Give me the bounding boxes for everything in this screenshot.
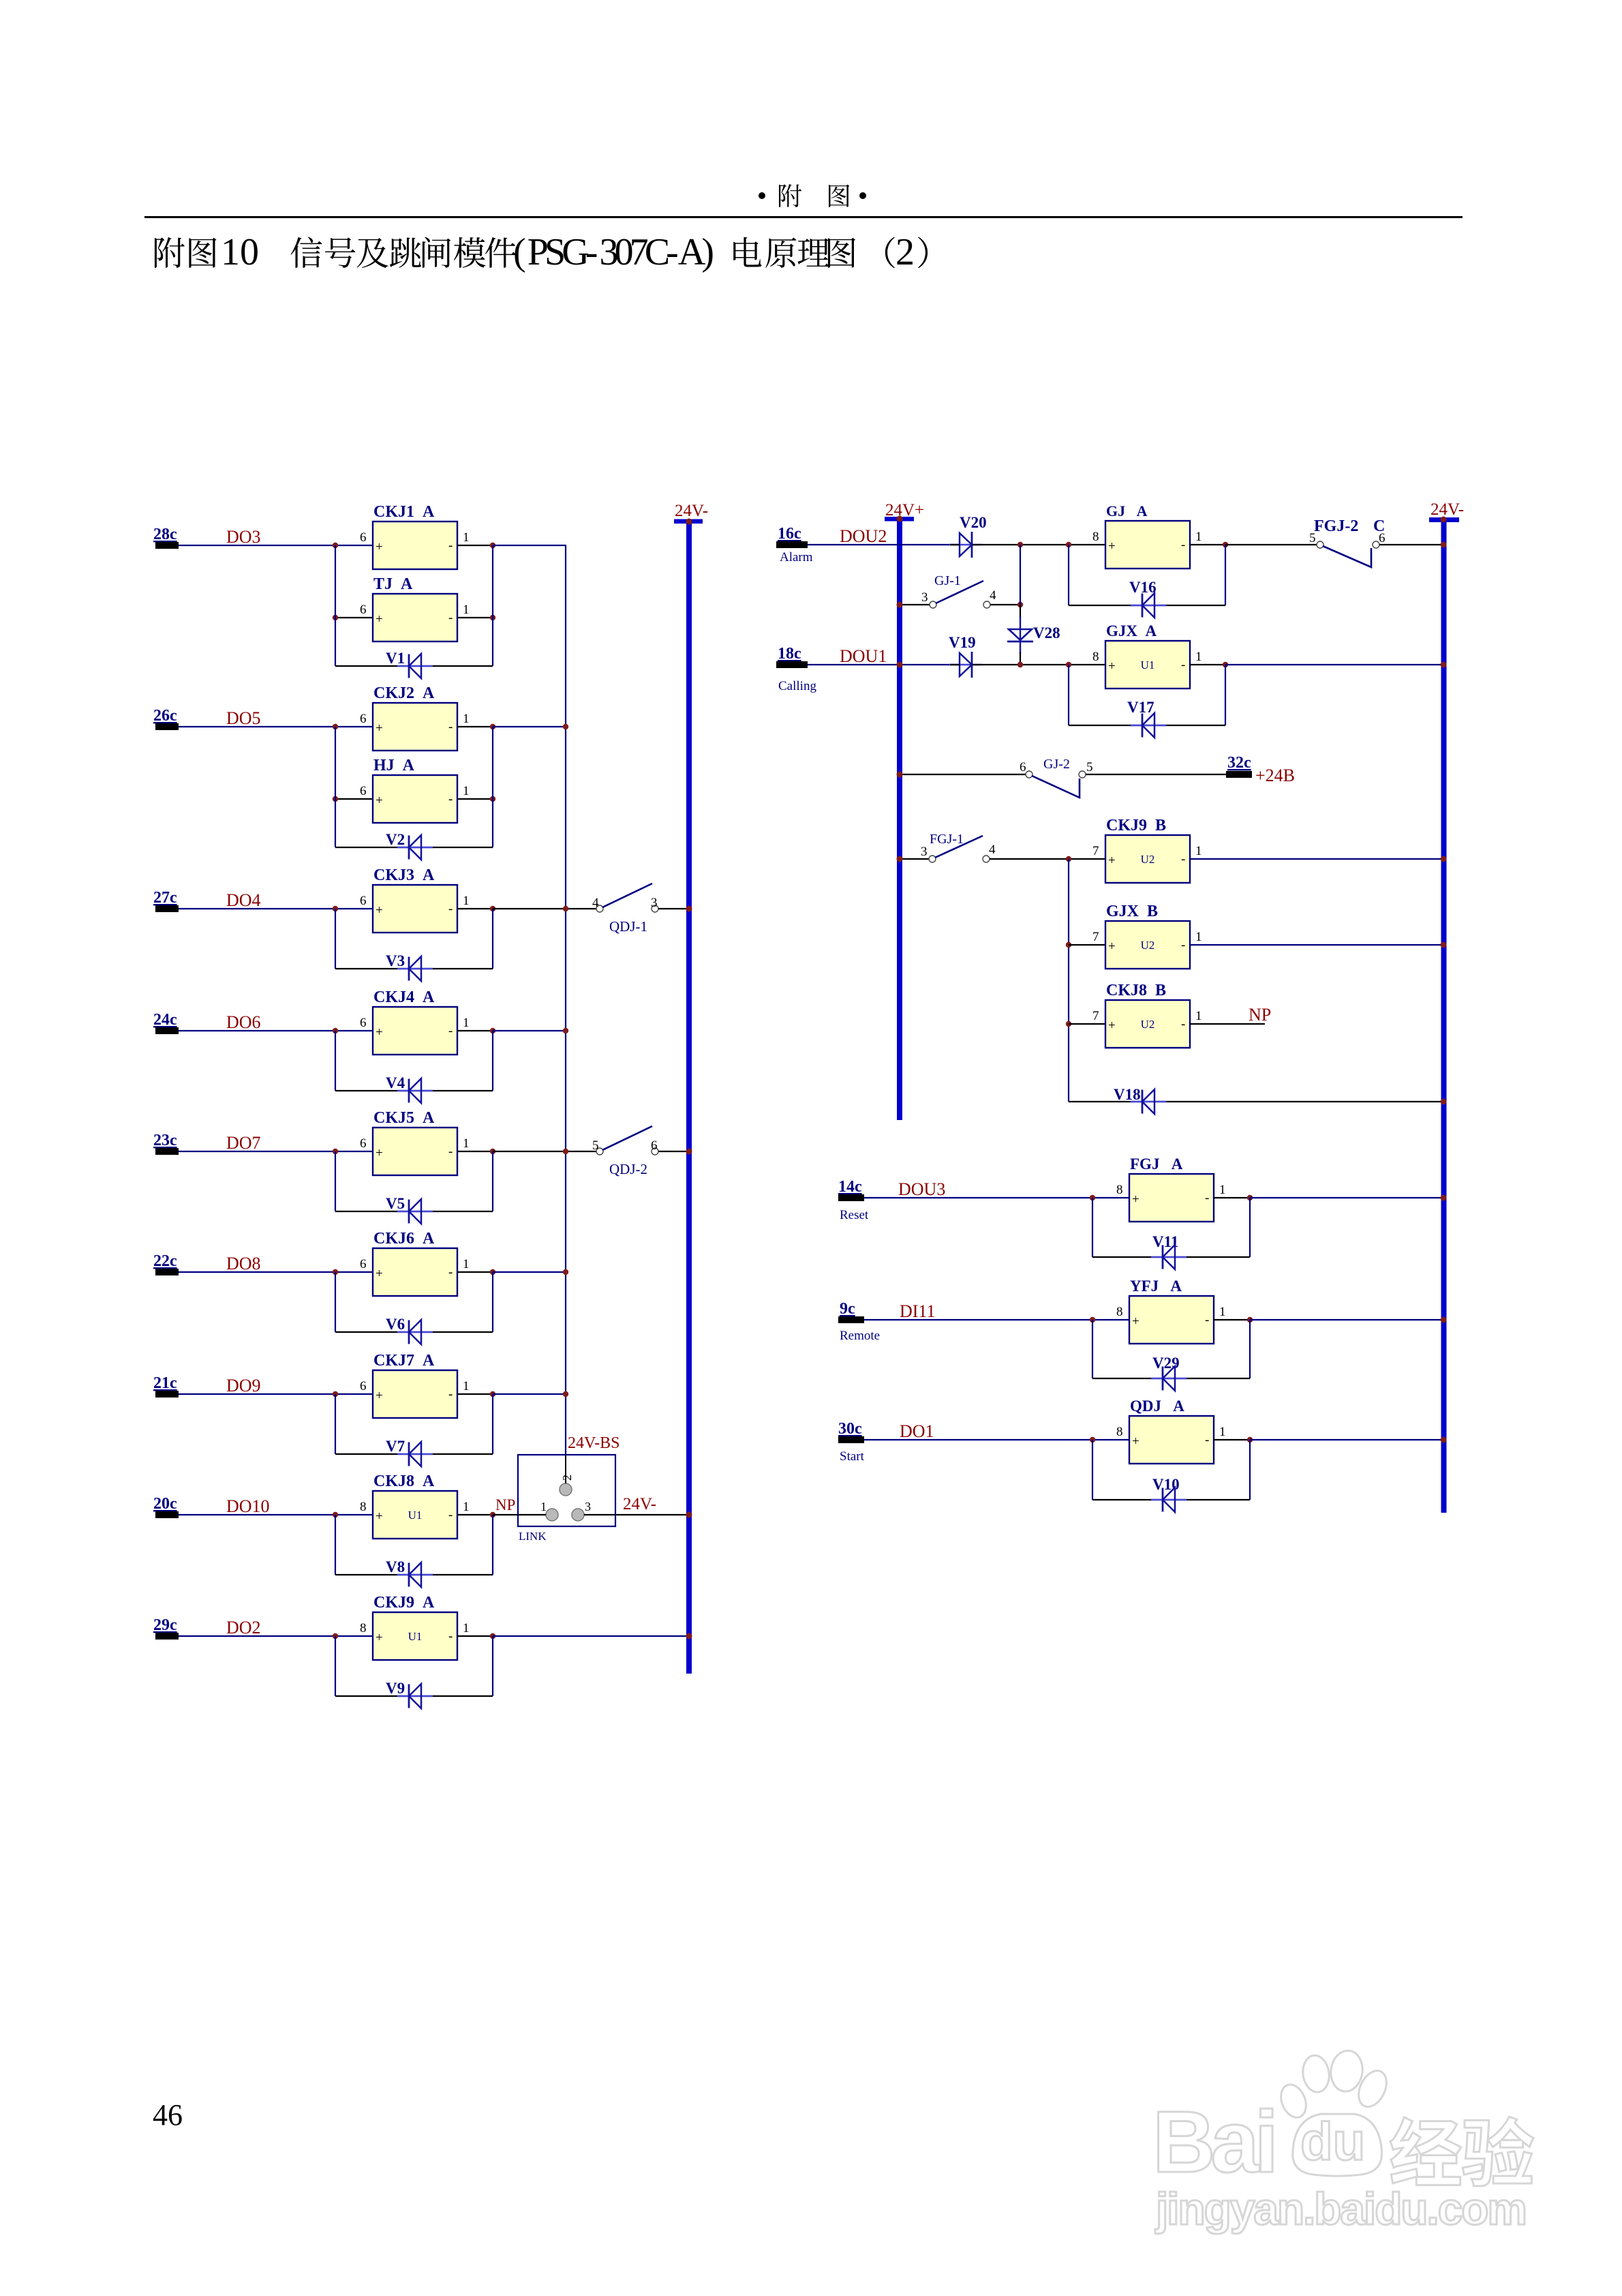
wire 21c to relay bbox=[179, 1393, 373, 1395]
svg-text:6: 6 bbox=[360, 1257, 367, 1271]
wire CKJ9 B to 24V- bus bbox=[1190, 858, 1443, 860]
node junction GJ coil right bbox=[1223, 542, 1228, 547]
svg-text:-: - bbox=[1181, 852, 1185, 866]
net label DO2 bbox=[226, 1618, 261, 1637]
terminal 16c Alarm bbox=[776, 525, 813, 564]
wire vertical left DO2 group bbox=[335, 1636, 336, 1696]
relay CKJ2 A bbox=[360, 684, 470, 751]
relay GJX A bbox=[1092, 622, 1202, 689]
svg-text:( PSG- 307C- A): ( PSG- 307C- A) bbox=[513, 231, 714, 273]
wire V18 row bbox=[1069, 1101, 1443, 1102]
svg-text:-: - bbox=[1205, 1313, 1209, 1327]
diode V10 bbox=[1151, 1476, 1187, 1512]
wire GJX A to 24V- bus bbox=[1225, 664, 1443, 665]
node junction right DO9 bbox=[490, 1391, 495, 1397]
connector LINK bbox=[518, 1455, 615, 1543]
svg-text:+: + bbox=[376, 612, 383, 626]
wire GJX B to 24V- bus bbox=[1190, 944, 1443, 946]
node 24V- right bus junction QDJ A bbox=[1441, 1437, 1447, 1443]
svg-text:10: 10 bbox=[221, 231, 259, 273]
wire GJX A pin1 stub bbox=[1190, 664, 1225, 665]
node feeder junction y2045 bbox=[563, 1391, 568, 1397]
node junction FGJ A right bbox=[1247, 1195, 1253, 1200]
relay GJX B bbox=[1092, 903, 1202, 969]
svg-text:V28: V28 bbox=[1033, 624, 1060, 641]
svg-text:LINK: LINK bbox=[519, 1530, 547, 1543]
svg-text:-: - bbox=[448, 1629, 453, 1644]
node junction right DO4 bbox=[490, 906, 495, 911]
relay CKJ8 B bbox=[1092, 982, 1202, 1048]
wire relay CKJ3 pin1 stub bbox=[457, 908, 493, 909]
svg-text:+: + bbox=[376, 1509, 383, 1524]
node junction 24V+ DOU1 bbox=[897, 662, 902, 667]
node feeder junction y1066 bbox=[563, 724, 568, 729]
node 24V- right bus junction CKJ9 B bbox=[1441, 856, 1447, 862]
svg-text:V8: V8 bbox=[386, 1558, 405, 1575]
svg-text:24c: 24c bbox=[153, 1011, 177, 1029]
node junction right DO8 bbox=[490, 1269, 495, 1275]
terminal 26c bbox=[153, 707, 179, 730]
svg-text:21c: 21c bbox=[153, 1374, 177, 1392]
wire QDJ A vertical left bbox=[1092, 1440, 1093, 1500]
wire vertical right DO3 group bbox=[492, 545, 493, 666]
wire diode row V4 bbox=[335, 1090, 493, 1091]
svg-text:-: - bbox=[448, 720, 453, 734]
wire 14c to FGJ A bbox=[864, 1197, 1129, 1198]
node junction left DO10 bbox=[333, 1512, 338, 1517]
diode V29 bbox=[1151, 1355, 1187, 1391]
wire V29 row bbox=[1092, 1378, 1250, 1379]
svg-text:+: + bbox=[376, 1631, 383, 1645]
svg-text:-: - bbox=[448, 902, 453, 916]
wire vertical left DO4 group bbox=[335, 909, 336, 969]
diode V1 bbox=[386, 650, 433, 678]
node junction GJX A coil right bbox=[1223, 662, 1228, 667]
diode V2 bbox=[386, 831, 433, 860]
svg-text:3: 3 bbox=[921, 845, 928, 859]
svg-text:DOU3: DOU3 bbox=[898, 1179, 945, 1199]
wire relay CKJ4 pin1 stub bbox=[457, 1030, 493, 1031]
svg-text:32c: 32c bbox=[1227, 754, 1251, 772]
net label DOU3 bbox=[898, 1179, 945, 1199]
relay CKJ5 A bbox=[360, 1109, 470, 1175]
wire GJX A group vertical right bbox=[1225, 665, 1226, 725]
relay HJ A bbox=[360, 757, 470, 823]
terminal 9c Remote bbox=[838, 1300, 880, 1343]
net label DO4 bbox=[226, 890, 261, 910]
svg-text:CKJ7 A: CKJ7 A bbox=[373, 1352, 435, 1370]
net label DI11 bbox=[900, 1301, 935, 1321]
wire YFJ A vertical left bbox=[1092, 1320, 1093, 1378]
svg-text:27c: 27c bbox=[153, 889, 177, 907]
svg-text:6: 6 bbox=[360, 784, 367, 798]
terminal 21c bbox=[153, 1374, 179, 1398]
page number 46 bbox=[153, 2098, 183, 2132]
node feeder junction DO7 bbox=[563, 1149, 568, 1154]
wire relay CKJ9 pin1 stub bbox=[457, 1635, 493, 1637]
svg-text:DI11: DI11 bbox=[900, 1301, 935, 1321]
wire vertical feeder to LINK pin2 bbox=[565, 545, 566, 1490]
svg-text:1: 1 bbox=[1195, 650, 1202, 664]
svg-text:V2: V2 bbox=[386, 831, 405, 848]
svg-text:DOU1: DOU1 bbox=[840, 646, 887, 666]
svg-text:CKJ8 A: CKJ8 A bbox=[373, 1472, 435, 1490]
svg-text:V18: V18 bbox=[1114, 1086, 1141, 1103]
svg-text:-: - bbox=[448, 611, 453, 625]
svg-text:-: - bbox=[448, 1387, 453, 1402]
svg-text:DO8: DO8 bbox=[226, 1254, 261, 1273]
node 24V+ bus junction GJ-2 bbox=[897, 772, 903, 778]
wire vertical right DO4 group bbox=[492, 909, 493, 969]
svg-text:U1: U1 bbox=[408, 1509, 423, 1522]
net label 24V- at LINK bbox=[623, 1495, 656, 1513]
svg-text:V1: V1 bbox=[386, 650, 405, 667]
svg-text:Start: Start bbox=[840, 1449, 865, 1464]
svg-text:28c: 28c bbox=[153, 526, 177, 543]
wire DO3 output to vertical feeder bbox=[493, 545, 566, 546]
wire 16c to diode V20 bbox=[808, 544, 960, 545]
relay GJ A bbox=[1092, 502, 1202, 569]
svg-text:Reset: Reset bbox=[840, 1208, 869, 1222]
svg-text:6: 6 bbox=[1379, 531, 1386, 545]
node 24V- left bus junction bus top bbox=[686, 519, 692, 525]
wire diode row V5 bbox=[335, 1211, 493, 1212]
wire vertical right DO5 group bbox=[492, 727, 493, 847]
svg-text:1: 1 bbox=[463, 784, 470, 798]
svg-text:24V-BS: 24V-BS bbox=[568, 1434, 619, 1452]
diode V16 bbox=[1129, 579, 1166, 618]
svg-text:+: + bbox=[376, 903, 383, 918]
wire LINK pin3 to 24V- bus bbox=[583, 1514, 689, 1515]
svg-text:CKJ2 A: CKJ2 A bbox=[373, 684, 435, 702]
svg-text:1: 1 bbox=[1195, 1009, 1202, 1023]
wire vertical left DO7 group bbox=[335, 1151, 336, 1211]
svg-text:6: 6 bbox=[360, 1136, 367, 1151]
wire relay CKJ1 pin1 stub bbox=[457, 545, 493, 546]
net label DO10 bbox=[226, 1496, 270, 1516]
node 24V+ bus junction FGJ-1 bbox=[897, 856, 903, 862]
power bus 24V- right bbox=[1429, 500, 1464, 1513]
svg-text:1: 1 bbox=[1219, 1183, 1226, 1197]
terminal 30c Start bbox=[838, 1420, 865, 1464]
net label DO8 bbox=[226, 1254, 261, 1273]
node junction V28 bottom bbox=[1017, 662, 1023, 667]
svg-text:-: - bbox=[448, 1024, 453, 1038]
wire relay CKJ2 pin1 stub bbox=[457, 726, 493, 727]
node junction left DO9 bbox=[333, 1391, 338, 1397]
net label DO3 bbox=[226, 527, 261, 547]
wire vertical right DO9 group bbox=[492, 1394, 493, 1454]
wire vertical right DO10 group bbox=[492, 1515, 493, 1575]
wire 9c to YFJ A bbox=[864, 1319, 1129, 1320]
relay FGJ A bbox=[1116, 1155, 1226, 1222]
net label DO6 bbox=[226, 1012, 261, 1032]
svg-text:DO6: DO6 bbox=[226, 1012, 261, 1032]
svg-text:GJ-1: GJ-1 bbox=[934, 573, 961, 588]
svg-text:FGJ-1: FGJ-1 bbox=[930, 832, 964, 847]
terminal 22c bbox=[153, 1252, 179, 1275]
node junction right DO10 bbox=[490, 1512, 495, 1517]
wire V16 row bbox=[1069, 605, 1225, 606]
svg-text:16c: 16c bbox=[778, 525, 801, 543]
svg-text:QDJ A: QDJ A bbox=[1130, 1398, 1184, 1415]
wire QDJ A pin1 stub bbox=[1214, 1439, 1250, 1440]
node feeder junction y1512 bbox=[563, 1028, 568, 1033]
relay CKJ9 A bbox=[360, 1594, 470, 1660]
svg-text:8: 8 bbox=[1092, 650, 1099, 664]
svg-text:V16: V16 bbox=[1129, 579, 1157, 596]
svg-text:1: 1 bbox=[463, 1621, 470, 1635]
wire V10 row bbox=[1092, 1499, 1250, 1500]
svg-text:CKJ3 A: CKJ3 A bbox=[373, 866, 435, 884]
svg-text:FGJ A: FGJ A bbox=[1130, 1155, 1183, 1173]
node junction QDJ A left bbox=[1090, 1437, 1095, 1442]
node 24V- right bus junction V18 bbox=[1441, 1099, 1447, 1105]
node junction right DO5 bbox=[490, 724, 495, 729]
net label DO7 bbox=[226, 1133, 261, 1153]
wire 28c to relay bbox=[179, 545, 373, 546]
wire 20c to relay bbox=[179, 1514, 373, 1515]
node junction YFJ A right bbox=[1247, 1317, 1253, 1323]
svg-text:GJ-2: GJ-2 bbox=[1043, 757, 1070, 772]
svg-text:+: + bbox=[1132, 1434, 1139, 1449]
node 24V+ bus junction GJ-1 bbox=[897, 602, 903, 608]
wire DO7 to switch QDJ-2 bbox=[493, 1151, 596, 1152]
wire output to feeder y2045 bbox=[493, 1393, 566, 1395]
wire DO4 to switch QDJ-1 bbox=[493, 908, 596, 909]
wire vertical right DO8 group bbox=[492, 1272, 493, 1332]
terminal 18c Calling bbox=[776, 645, 816, 693]
wire diode row V3 bbox=[335, 968, 493, 969]
svg-text:+: + bbox=[376, 1267, 383, 1281]
svg-text:DOU2: DOU2 bbox=[840, 526, 887, 546]
wire GJ-2 to 32c bbox=[1086, 774, 1226, 775]
svg-text:6: 6 bbox=[360, 603, 367, 617]
svg-text:+: + bbox=[376, 721, 383, 736]
svg-text:+24B: +24B bbox=[1255, 766, 1295, 785]
node 24V+ bus junction DOU1 bbox=[897, 662, 903, 668]
wire FGJ A to 24V- bus bbox=[1250, 1197, 1443, 1198]
relay CKJ6 A bbox=[360, 1230, 470, 1296]
wire V17 row bbox=[1069, 725, 1225, 726]
wire vertical right DO7 group bbox=[492, 1151, 493, 1211]
diode V8 bbox=[386, 1558, 433, 1587]
svg-text:CKJ5 A: CKJ5 A bbox=[373, 1109, 435, 1127]
svg-text:CKJ1 A: CKJ1 A bbox=[373, 503, 435, 521]
svg-text:HJ A: HJ A bbox=[373, 757, 415, 774]
wire 24c to relay bbox=[179, 1030, 373, 1031]
svg-text:2: 2 bbox=[560, 1475, 574, 1481]
node junction TJ left bbox=[333, 615, 338, 620]
svg-text:V9: V9 bbox=[386, 1680, 405, 1697]
node junction CKJ9 B coil left bbox=[1066, 856, 1071, 862]
svg-text:1: 1 bbox=[463, 530, 470, 545]
wire 18c to diode V19 bbox=[808, 664, 960, 665]
svg-text:+: + bbox=[376, 794, 383, 808]
svg-text:+: + bbox=[1132, 1314, 1139, 1329]
wire V11 row bbox=[1092, 1256, 1250, 1258]
svg-text:V20: V20 bbox=[960, 514, 987, 531]
wire 29c to relay bbox=[179, 1635, 373, 1637]
diode V9 bbox=[386, 1680, 433, 1708]
node feeder junction y1866 bbox=[563, 1269, 568, 1275]
wire vertical left DO5 group bbox=[335, 727, 336, 847]
svg-text:-: - bbox=[1181, 658, 1185, 672]
svg-text:8: 8 bbox=[1116, 1305, 1123, 1319]
diode V6 bbox=[386, 1316, 433, 1344]
svg-text:6: 6 bbox=[360, 894, 367, 908]
svg-text:QDJ-1: QDJ-1 bbox=[609, 918, 647, 935]
svg-text:V6: V6 bbox=[386, 1316, 405, 1333]
svg-text:-: - bbox=[448, 1508, 453, 1522]
node junction left DO6 bbox=[333, 1028, 338, 1033]
relay CKJ7 A bbox=[360, 1352, 470, 1418]
svg-text:7: 7 bbox=[1092, 844, 1099, 858]
svg-text:6: 6 bbox=[651, 1138, 658, 1153]
net label 24V-BS bbox=[568, 1434, 619, 1452]
node 24V- left bus junction QDJ-2 bbox=[686, 1149, 692, 1155]
terminal 20c bbox=[153, 1495, 179, 1518]
svg-text:CKJ4 A: CKJ4 A bbox=[373, 988, 435, 1006]
svg-text:8: 8 bbox=[1116, 1425, 1123, 1439]
svg-text:6: 6 bbox=[360, 1379, 367, 1393]
wire QDJ-2 to 24V- bus bbox=[658, 1151, 689, 1152]
switch QDJ-2 bbox=[592, 1126, 658, 1177]
diode V4 bbox=[386, 1074, 433, 1103]
wire 24V+ to FGJ-1 bbox=[900, 858, 929, 860]
relay TJ A bbox=[360, 575, 470, 641]
wire diode row V2 bbox=[335, 847, 493, 848]
svg-text:1: 1 bbox=[1195, 844, 1202, 858]
svg-text:30c: 30c bbox=[838, 1420, 862, 1438]
svg-text:26c: 26c bbox=[153, 707, 177, 725]
svg-text:1: 1 bbox=[463, 603, 470, 617]
svg-text:QDJ-2: QDJ-2 bbox=[609, 1161, 647, 1177]
svg-text:5: 5 bbox=[1309, 531, 1316, 545]
node junction right DO7 bbox=[490, 1149, 495, 1154]
svg-text:1: 1 bbox=[1195, 530, 1202, 544]
wire vertical left DO9 group bbox=[335, 1394, 336, 1454]
svg-text:U1: U1 bbox=[1141, 659, 1155, 671]
node junction right DO2 bbox=[490, 1633, 495, 1639]
wire 27c to relay bbox=[179, 908, 373, 909]
svg-text:V4: V4 bbox=[386, 1074, 405, 1091]
svg-text:V19: V19 bbox=[949, 634, 976, 651]
svg-text:DO3: DO3 bbox=[226, 527, 261, 547]
svg-text:DO7: DO7 bbox=[226, 1133, 261, 1153]
svg-text:DO2: DO2 bbox=[226, 1618, 261, 1637]
svg-text:24V-: 24V- bbox=[675, 502, 708, 520]
relay YFJ A bbox=[1116, 1278, 1226, 1344]
svg-text:18c: 18c bbox=[778, 645, 801, 663]
svg-text:DO1: DO1 bbox=[900, 1421, 934, 1441]
svg-text:1: 1 bbox=[463, 1257, 470, 1271]
svg-text:24V+: 24V+ bbox=[885, 501, 924, 519]
node junction HJ left bbox=[333, 796, 338, 802]
svg-text:-: - bbox=[448, 1145, 453, 1159]
node junction left DO7 bbox=[333, 1149, 338, 1154]
svg-text:5: 5 bbox=[1086, 760, 1093, 774]
node junction GJX A coil left bbox=[1066, 662, 1071, 667]
wire output to feeder y1512 bbox=[493, 1030, 566, 1031]
node junction TJ right bbox=[490, 615, 495, 620]
svg-text:8: 8 bbox=[1092, 530, 1099, 544]
node 24V- right bus junction GJX B bbox=[1441, 942, 1447, 948]
svg-text:1: 1 bbox=[1195, 930, 1202, 944]
node 24V+ bus junction top bbox=[897, 516, 903, 522]
wire YFJ A vertical right bbox=[1249, 1320, 1251, 1378]
node junction left DO8 bbox=[333, 1269, 338, 1275]
svg-text:4: 4 bbox=[989, 843, 996, 857]
node 24V- left bus junction DO10 bbox=[686, 1512, 692, 1518]
svg-text:U2: U2 bbox=[1141, 853, 1155, 866]
svg-text:V17: V17 bbox=[1127, 699, 1154, 716]
wire vertical right DO2 group bbox=[492, 1636, 493, 1696]
relay CKJ4 A bbox=[360, 988, 470, 1055]
svg-text:7: 7 bbox=[1092, 930, 1099, 944]
net label NP left bbox=[495, 1496, 515, 1513]
wire FGJ-2 to 24V- bus bbox=[1379, 544, 1443, 545]
svg-text:4: 4 bbox=[990, 588, 996, 603]
svg-text:6: 6 bbox=[360, 1016, 367, 1030]
svg-text:-: - bbox=[448, 539, 453, 553]
diode V11 bbox=[1151, 1233, 1187, 1269]
svg-text:3: 3 bbox=[585, 1500, 591, 1513]
node 24V- left bus junction QDJ-1 bbox=[686, 906, 692, 912]
svg-text:-: - bbox=[1205, 1191, 1209, 1205]
wire 24V+ to GJ-2 bbox=[900, 774, 1026, 775]
wire relay CKJ8 pin1 stub bbox=[457, 1514, 493, 1515]
svg-text:FGJ-2: FGJ-2 bbox=[1314, 517, 1358, 535]
wire 26c to relay bbox=[179, 726, 373, 727]
svg-text:du: du bbox=[1300, 2111, 1365, 2171]
node junction GJ-1 out bbox=[1017, 602, 1023, 607]
wire QDJ-1 to 24V- bus bbox=[658, 908, 689, 909]
wire QDJ A to 24V- bus bbox=[1250, 1439, 1443, 1440]
wire CKJ8 B to NP bbox=[1190, 1023, 1265, 1025]
svg-text:-: - bbox=[1181, 538, 1185, 552]
svg-text:CKJ9 A: CKJ9 A bbox=[373, 1594, 435, 1612]
wire diode row V7 bbox=[335, 1453, 493, 1455]
wire vertical left DO3 group bbox=[335, 545, 336, 666]
svg-text:V7: V7 bbox=[386, 1438, 405, 1455]
svg-text:GJX A: GJX A bbox=[1106, 622, 1157, 639]
wire CKJ8 B stub bbox=[1069, 1023, 1105, 1025]
svg-text:-: - bbox=[1205, 1433, 1209, 1447]
switch GJ-1 bbox=[921, 573, 996, 608]
svg-text:YFJ A: YFJ A bbox=[1130, 1278, 1182, 1295]
wire GJ group vertical right bbox=[1225, 545, 1226, 605]
svg-text:jingyan.baidu.com: jingyan.baidu.com bbox=[1154, 2184, 1527, 2234]
wire QDJ A vertical right bbox=[1249, 1440, 1251, 1500]
svg-text:3: 3 bbox=[651, 896, 658, 910]
wire FGJ A vertical right bbox=[1249, 1198, 1251, 1257]
svg-text:+: + bbox=[376, 1389, 383, 1403]
net label +24B bbox=[1255, 766, 1295, 785]
wire relay CKJ5 pin1 stub bbox=[457, 1151, 493, 1152]
relay CKJ3 A bbox=[360, 866, 470, 933]
svg-text:6: 6 bbox=[360, 712, 367, 726]
svg-text:5: 5 bbox=[592, 1138, 599, 1153]
wire YFJ A to 24V- bus bbox=[1250, 1319, 1443, 1320]
wire stub to TJ coil bbox=[335, 617, 493, 618]
svg-text:8: 8 bbox=[360, 1500, 367, 1514]
wire FGJ-1 to CKJ9 B bbox=[990, 858, 1105, 860]
relay CKJ8 A bbox=[360, 1472, 470, 1539]
svg-text:V3: V3 bbox=[386, 952, 405, 969]
svg-text:1: 1 bbox=[463, 1500, 470, 1514]
wire vertical right DO6 group bbox=[492, 1031, 493, 1091]
